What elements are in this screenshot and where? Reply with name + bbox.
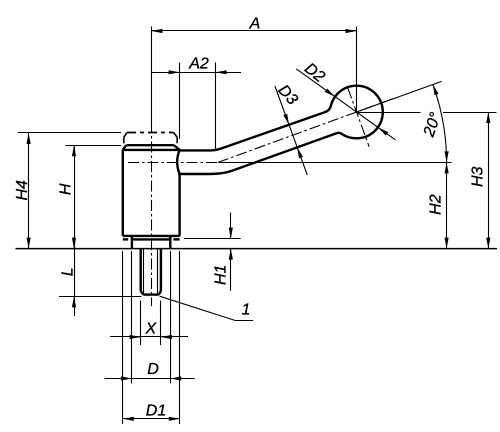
- dimension A2 line: [152, 72, 241, 74]
- 20 deg arc: [433, 84, 447, 162]
- L bottom arrow (outside, pointing up): [72, 296, 76, 307]
- H1 dimension lines: [230, 213, 232, 239]
- D right arrow: [170, 376, 181, 380]
- svg-text:D: D: [147, 361, 159, 378]
- X extension lines: [140, 301, 142, 346]
- D extension lines: [131, 251, 133, 384]
- H dimension line: [74, 145, 76, 248]
- D1 dimension line: [123, 418, 180, 420]
- H top arrow: [72, 145, 76, 156]
- lever shaft (tapered arm) fill: [178, 105, 348, 174]
- X left arrow: [130, 335, 141, 339]
- D1 left arrow: [123, 417, 134, 421]
- dimension A2 left arrow: [169, 70, 180, 74]
- svg-text:D1: D1: [146, 403, 166, 420]
- svg-text:A2: A2: [188, 55, 209, 72]
- hub bottom edge: [123, 235, 180, 237]
- H4 bottom arrow: [27, 238, 31, 249]
- threaded stud sides: [139, 249, 141, 292]
- svg-text:H3: H3: [469, 166, 486, 187]
- svg-text:H2: H2: [428, 194, 445, 215]
- 20 deg top arrow: [433, 84, 439, 95]
- D2 upper arrow: [325, 89, 335, 97]
- H4 top arrow: [27, 133, 31, 144]
- hub top cap (phantom raised position): [127, 132, 174, 134]
- H4 top extension line: [18, 132, 121, 134]
- svg-text:A: A: [249, 15, 261, 32]
- D2 lower arrow: [378, 127, 388, 135]
- D2 dimension line through ball: [296, 69, 395, 140]
- D left arrow: [121, 376, 132, 380]
- X dimension line: [110, 336, 188, 338]
- thread minor diameter lines: [143, 249, 145, 294]
- svg-text:H1: H1: [213, 265, 230, 285]
- H2 extension line: [219, 162, 452, 164]
- lever shaft top edge: [178, 105, 331, 150]
- H3 dimension line: [488, 112, 490, 249]
- D1 right arrow: [169, 417, 180, 421]
- D3 dimension line across shaft: [275, 86, 307, 175]
- serrated washer top: [123, 238, 128, 240]
- H1 extension line: [184, 238, 241, 240]
- lever horizontal centerline: [128, 162, 218, 164]
- H3 extension line: [357, 112, 421, 114]
- svg-text:H4: H4: [14, 180, 31, 201]
- H3 bottom arrow: [486, 238, 490, 249]
- L bottom extension line: [59, 296, 142, 298]
- H4 dimension line: [28, 133, 30, 249]
- stud end chamfers and bottom: [141, 291, 144, 294]
- H2 top arrow: [445, 162, 449, 173]
- svg-text:1: 1: [242, 302, 251, 319]
- D3 upper arrow: [283, 114, 289, 125]
- svg-text:L: L: [59, 267, 76, 276]
- dimension A line: [152, 30, 357, 32]
- dimension A2 right arrow: [216, 70, 227, 74]
- hub-lever fillet arc: [177, 150, 180, 174]
- D dimension line: [105, 378, 195, 380]
- dimension A2 extension lines: [179, 63, 181, 140]
- D3 lower arrow: [297, 147, 303, 158]
- lever shaft bottom edge: [178, 133, 342, 174]
- svg-text:X: X: [144, 321, 157, 338]
- H bottom arrow: [72, 238, 76, 249]
- mounting surface line: [16, 248, 498, 250]
- dimension A left arrow: [152, 29, 163, 33]
- ball perpendicular centerline: [348, 88, 369, 147]
- H top extension line: [66, 145, 122, 147]
- svg-text:H: H: [58, 183, 75, 195]
- H2 dimension line: [446, 162, 448, 248]
- H1 lower arrow: [229, 249, 233, 260]
- 20 deg extension line along lever axis: [357, 81, 442, 112]
- lever inclined centerline (20 deg): [218, 98, 396, 163]
- washer sides: [131, 236, 133, 249]
- L dimension line: [74, 249, 76, 316]
- leader line to item 1 (thread): [160, 296, 254, 320]
- X right arrow: [161, 335, 172, 339]
- H1 upper arrow: [229, 228, 233, 239]
- dimension A right arrow: [346, 29, 357, 33]
- hub top face chamfer: [126, 144, 174, 146]
- D1 extension lines: [122, 251, 124, 424]
- dimension A extension lines: [151, 27, 153, 123]
- vertical screw axis centerline: [151, 122, 153, 306]
- 20 deg bottom arrow: [445, 151, 449, 162]
- hub body sides: [122, 150, 124, 236]
- H2 bottom arrow: [445, 238, 449, 249]
- H3 top arrow: [486, 112, 490, 123]
- ball end of lever: [330, 86, 383, 139]
